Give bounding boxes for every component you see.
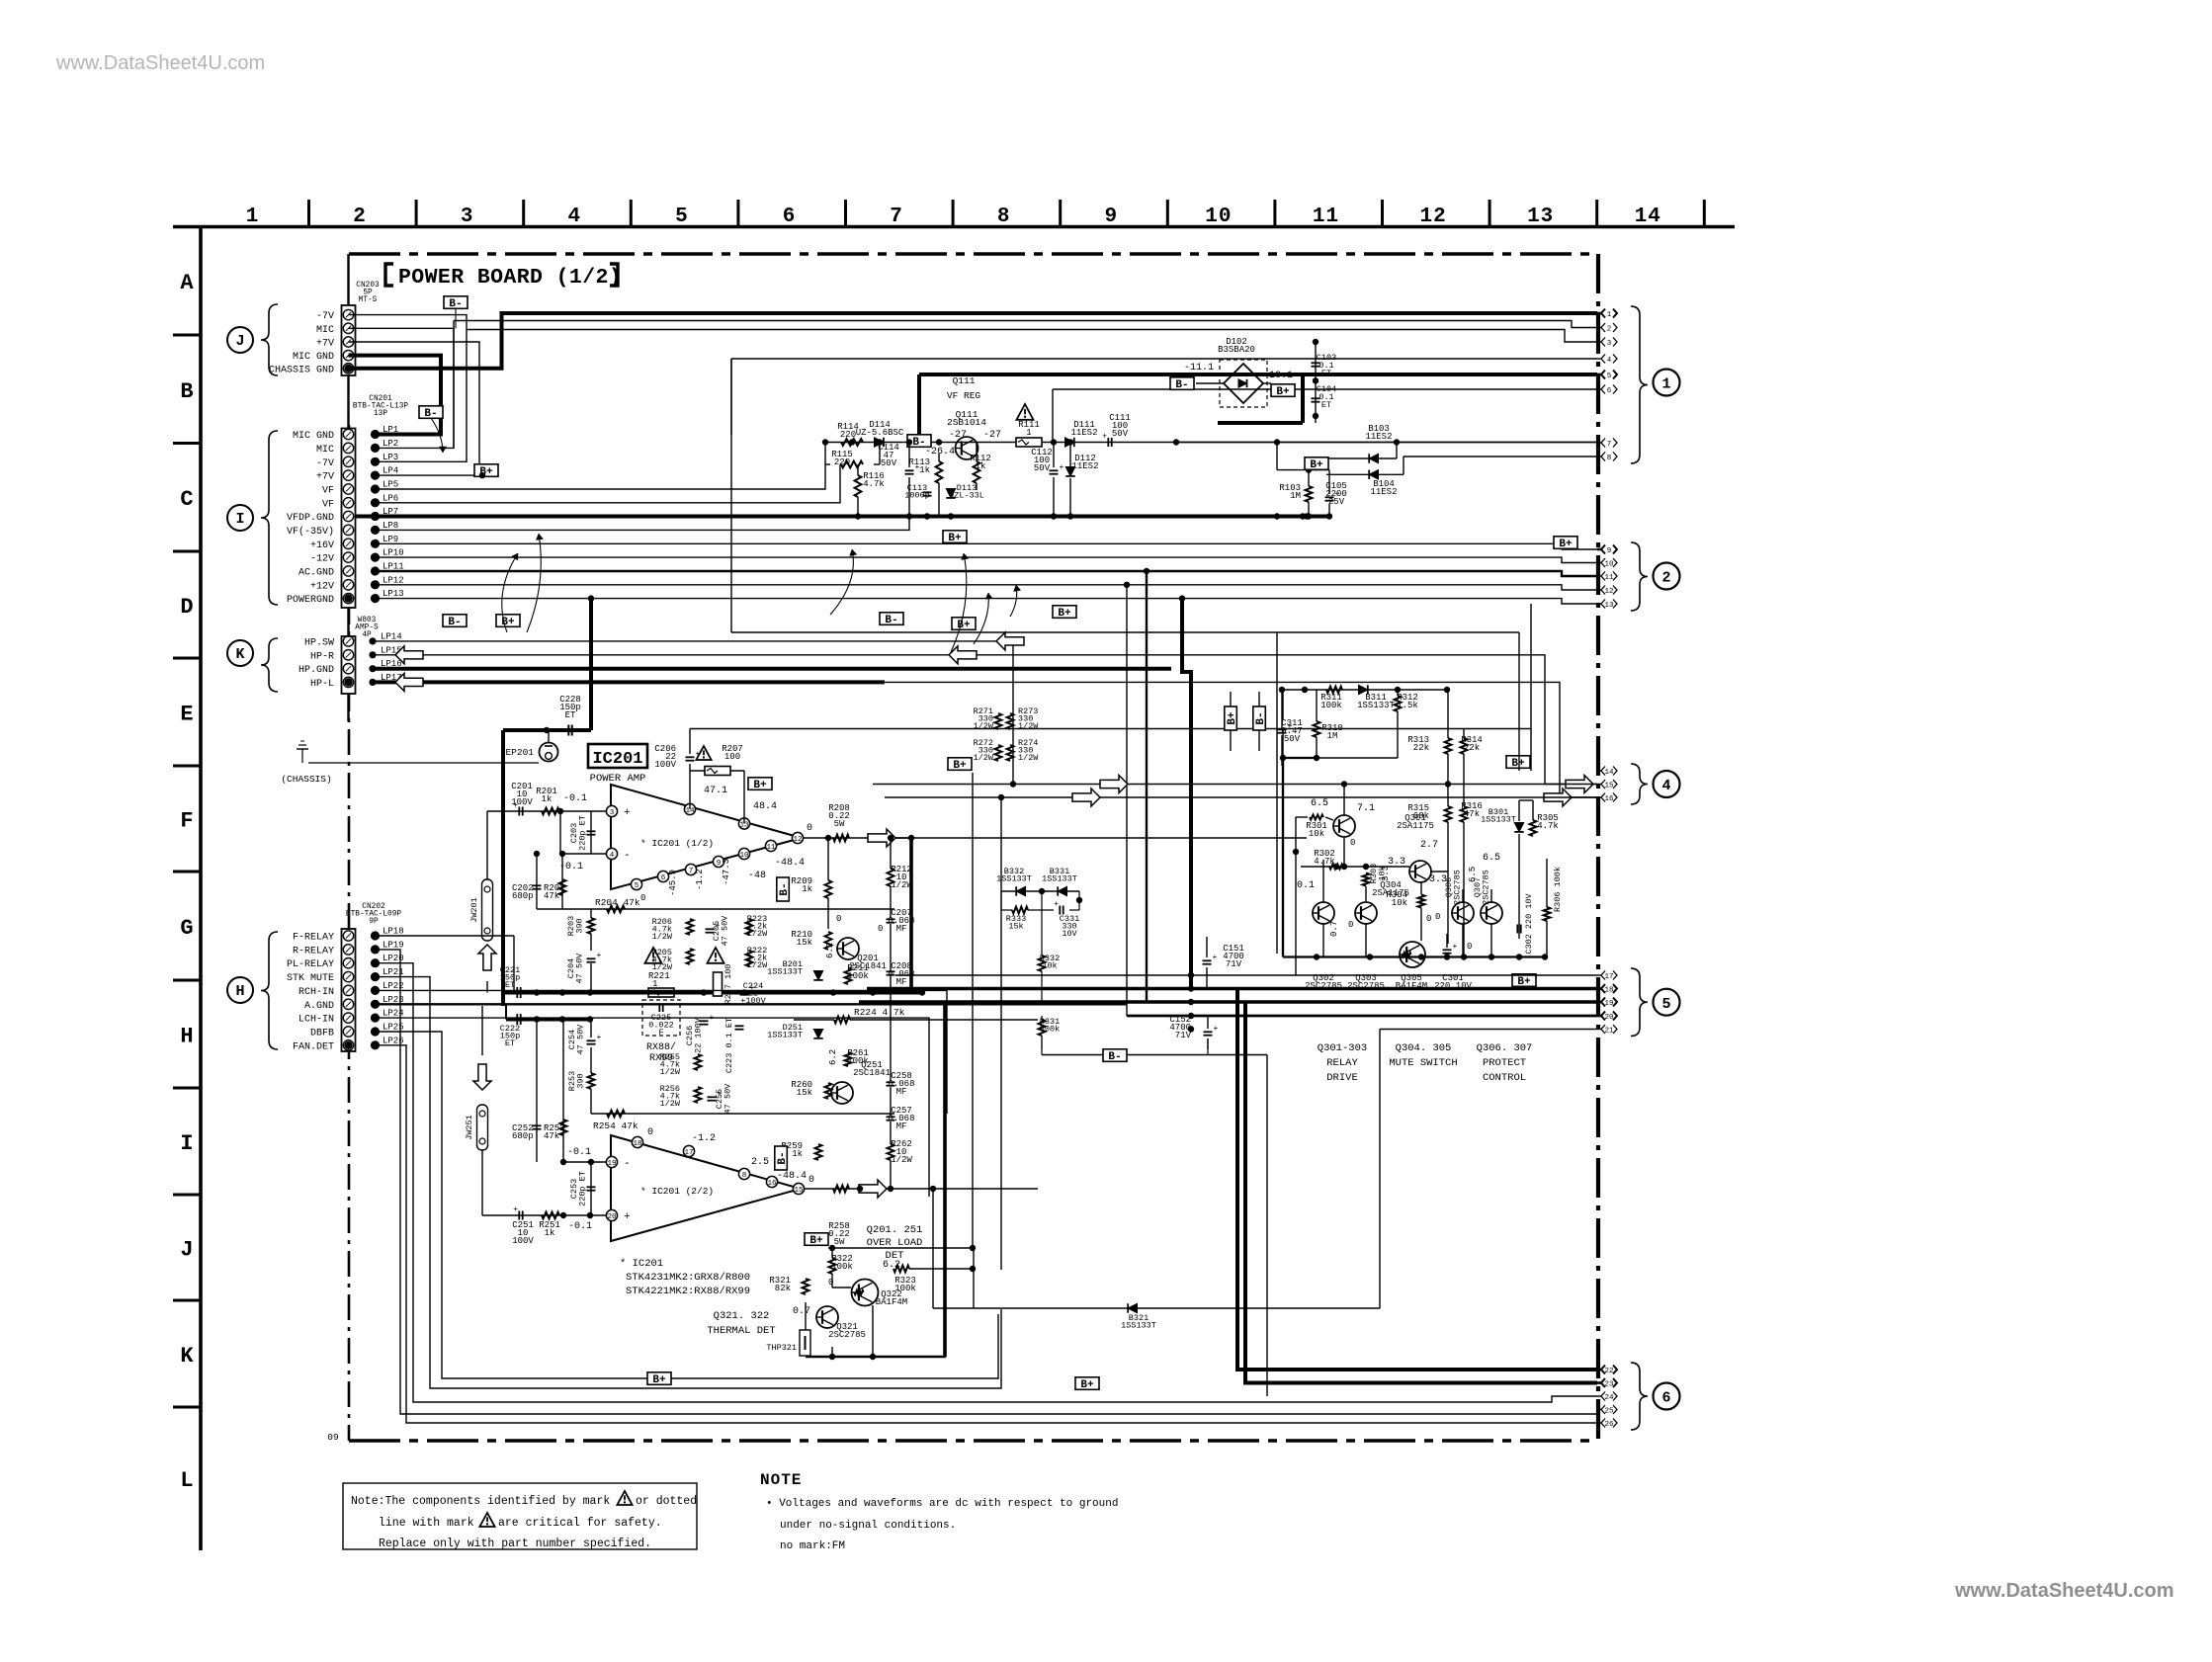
arrow up jumper [478, 945, 496, 970]
svg-text:220: 220 [840, 430, 856, 440]
circled net label 5 [1654, 989, 1680, 1016]
wire HP-L row [373, 680, 885, 684]
svg-text:0.7: 0.7 [1329, 921, 1339, 937]
svg-text:11: 11 [1313, 206, 1339, 228]
svg-text:+: + [1214, 1025, 1219, 1034]
capacitor C253 [590, 1162, 592, 1215]
svg-text:6.5: 6.5 [1468, 867, 1478, 882]
svg-text:FAN.DET: FAN.DET [293, 1041, 334, 1052]
ruler top line [173, 225, 1735, 229]
wire A.GND thick [376, 1003, 1128, 1005]
capacitor C112 [1050, 469, 1059, 471]
svg-text:-: - [624, 1158, 631, 1170]
brace for H group [261, 932, 278, 1049]
arrow into node 16 [1544, 789, 1572, 806]
node <25> [1597, 1409, 1601, 1411]
svg-text:23: 23 [1604, 1381, 1614, 1389]
svg-text:www.DataSheet4U.com: www.DataSheet4U.com [1954, 1580, 2174, 1602]
bridge rectifier D102 diamond [1224, 364, 1263, 403]
node <24> [1597, 1395, 1601, 1397]
capacitor C111 [1107, 438, 1109, 447]
connector chain vertical wire [347, 254, 349, 305]
svg-text:B+: B+ [1227, 711, 1238, 725]
CN202 pin R-RELAY / LP19 [343, 945, 353, 955]
svg-text:5: 5 [1607, 373, 1612, 380]
node <2> [1597, 327, 1601, 329]
svg-text:8: 8 [1607, 455, 1612, 462]
CN202 pin A.GND / LP23 [343, 999, 353, 1009]
svg-text:82k: 82k [775, 1284, 791, 1293]
capacitor C152 [1204, 1031, 1213, 1033]
svg-text:0.1: 0.1 [1297, 880, 1315, 891]
wire HP-R row [373, 655, 1597, 785]
svg-text:25: 25 [1604, 1408, 1614, 1416]
resistor R255 [695, 1054, 702, 1070]
connector I label circle [227, 505, 253, 531]
wire speaker rail stub [505, 1004, 507, 1019]
node <15> [1597, 784, 1601, 786]
relay bottom rail [1283, 956, 1545, 957]
thermistor THP321 [800, 1330, 810, 1356]
CN203 pin -7V [343, 309, 353, 319]
CN202 pin LCH-IN / LP24 [343, 1013, 353, 1023]
capacitor C256 [700, 1020, 709, 1022]
CN202 pin PL-RELAY / LP20 [343, 958, 353, 968]
svg-text:B-: B- [912, 437, 925, 449]
svg-text:R204 47k: R204 47k [595, 897, 640, 908]
svg-text:MT-S: MT-S [359, 296, 378, 304]
capacitor C225 dashed [642, 1000, 680, 1036]
svg-text:B+: B+ [1511, 758, 1525, 770]
svg-text:0: 0 [807, 823, 812, 834]
svg-text:6: 6 [661, 874, 666, 882]
CN201 pin MIC / LP2 [343, 443, 353, 453]
svg-text:G: G [180, 916, 193, 941]
svg-text:LP9: LP9 [383, 535, 398, 544]
svg-text:Q304. 305: Q304. 305 [1396, 1042, 1452, 1054]
svg-text:ET: ET [505, 1039, 515, 1048]
svg-text:-45.9: -45.9 [668, 870, 678, 896]
wire thick amp top rail [503, 728, 591, 732]
svg-text:+: + [1054, 900, 1059, 909]
svg-text:1/2W: 1/2W [891, 880, 912, 890]
wire node14 feed [1530, 604, 1532, 771]
svg-text:09: 09 [327, 1432, 339, 1443]
svg-text:+7V: +7V [316, 472, 334, 483]
svg-text:22: 22 [1604, 1368, 1613, 1375]
svg-text:R254 47k: R254 47k [593, 1121, 638, 1131]
svg-text:OVER LOAD: OVER LOAD [867, 1237, 923, 1249]
wire feedback row [537, 908, 894, 910]
svg-text:10V: 10V [1062, 929, 1077, 939]
wire mid drop 944 [932, 1189, 934, 1308]
resistor R111 box [1016, 438, 1042, 447]
svg-text:JW251: JW251 [465, 1115, 474, 1140]
arrow down mid [473, 1064, 491, 1090]
svg-text:LP14: LP14 [381, 631, 402, 641]
capacitor C208 [887, 970, 895, 972]
svg-text:5W: 5W [834, 819, 845, 829]
svg-text:1/2W: 1/2W [974, 721, 994, 731]
IC201 pin 20 [606, 1209, 617, 1220]
resistor R301 [1310, 815, 1323, 820]
svg-text:1SS133T: 1SS133T [1042, 874, 1077, 884]
wire MIC GND thick [349, 356, 442, 435]
svg-text:A.GND: A.GND [304, 1001, 334, 1012]
group5 row wires [895, 974, 1597, 976]
node <26> [1597, 1422, 1601, 1424]
svg-text:5: 5 [675, 206, 689, 228]
svg-text:390: 390 [576, 1073, 586, 1088]
svg-text:24: 24 [1604, 1394, 1614, 1402]
svg-text:R306 100k: R306 100k [1553, 867, 1563, 912]
svg-text:+: + [1102, 433, 1107, 442]
svg-text:B-: B- [1255, 711, 1267, 724]
svg-text:(CHASSIS): (CHASSIS) [281, 774, 331, 785]
svg-text:-7V: -7V [316, 458, 334, 469]
svg-text:18: 18 [1604, 987, 1613, 995]
resistor R311 [1326, 687, 1342, 694]
node <21> [1597, 1029, 1601, 1031]
svg-text:22k: 22k [1464, 743, 1480, 753]
CN201 pin MIC GND / LP1 [343, 429, 353, 439]
svg-text:THP321: THP321 [766, 1343, 797, 1353]
svg-text:POWER AMP: POWER AMP [590, 773, 646, 785]
transistor Q304 upper [1409, 861, 1431, 882]
resistor R115 [841, 461, 863, 468]
CN201 pin VF / LP6 [343, 498, 353, 508]
svg-text:POWER BOARD (1/2): POWER BOARD (1/2) [398, 266, 622, 290]
svg-text:47 50V: 47 50V [575, 953, 585, 984]
resistor R316 [1461, 806, 1468, 822]
power label B- rotated 2 [775, 1146, 789, 1170]
wire VF REG main row [825, 442, 1597, 444]
svg-text:UZ-5.6BSC: UZ-5.6BSC [856, 428, 904, 438]
capacitor C254 [587, 1039, 596, 1041]
svg-text:L: L [180, 1468, 193, 1493]
node dot row15 [1010, 781, 1016, 787]
CN201 pin -7V / LP3 [343, 457, 353, 466]
power label B+ under R272 [948, 758, 972, 772]
svg-text:1k: 1k [792, 1149, 803, 1159]
CN203 pin MIC GND [343, 350, 353, 360]
diode B201 [813, 971, 822, 980]
node <17> [1597, 974, 1601, 976]
resistor R257 box [714, 972, 723, 996]
resistor R112 [974, 461, 980, 483]
svg-text:-0.1: -0.1 [568, 1221, 592, 1232]
svg-text:48.4: 48.4 [753, 801, 777, 812]
zener D114 [875, 438, 884, 447]
svg-text:VF: VF [322, 486, 334, 497]
svg-text:PL-RELAY: PL-RELAY [287, 959, 334, 970]
ruler left line [199, 227, 203, 1551]
capacitor C205 [706, 928, 715, 930]
svg-text:MIC: MIC [316, 325, 334, 336]
wire B+ riser right [1301, 374, 1305, 423]
diode B301 [1514, 823, 1523, 832]
svg-text:MF: MF [896, 1122, 907, 1131]
power label B- mid D [880, 613, 903, 626]
wire B- rail [1042, 1054, 1267, 1056]
connector W803 body [342, 636, 356, 694]
connector CN201 body [342, 429, 356, 609]
CN202 pin F-RELAY / LP18 [343, 931, 353, 941]
svg-text:B-: B- [448, 617, 461, 628]
svg-text:LP12: LP12 [383, 575, 404, 585]
power label B+ row9 [1554, 537, 1577, 550]
node <9> [1597, 548, 1601, 551]
wire POWERGND drop to amp [589, 599, 593, 730]
svg-text:15: 15 [1604, 783, 1614, 790]
wire relay feed vertical [1276, 632, 1278, 954]
wire LCH-IN [376, 1018, 930, 1197]
resistor R253 [588, 1073, 595, 1089]
svg-text:or dotted: or dotted [636, 1495, 697, 1508]
wire base row [1301, 866, 1409, 868]
node <20> [1597, 1015, 1601, 1018]
svg-text:• Voltages and waveforms are d: • Voltages and waveforms are dc with res… [766, 1498, 1118, 1510]
wire VF row 1 [376, 464, 826, 489]
svg-text:0.7: 0.7 [793, 1306, 810, 1317]
svg-text:POWERGND: POWERGND [287, 595, 334, 606]
svg-text:6: 6 [1661, 1390, 1670, 1407]
CN201 pin +16V / LP9 [343, 539, 353, 548]
resistor R260 [825, 1083, 832, 1099]
wire RCH-IN [376, 990, 948, 1114]
transistor Q303 [1355, 902, 1377, 924]
ground bus thick row C [356, 515, 1330, 519]
warning triangle near R111 [1017, 404, 1034, 420]
svg-text:4.7k: 4.7k [1537, 821, 1559, 831]
node <23> [1597, 1381, 1601, 1384]
capacitor C331 [1059, 906, 1061, 915]
svg-text:300k: 300k [1040, 1025, 1060, 1035]
wire B+ drop [973, 1248, 975, 1308]
svg-text:4: 4 [610, 852, 615, 860]
svg-text:RCH-IN: RCH-IN [298, 987, 334, 998]
svg-text:H: H [235, 983, 244, 1000]
svg-text:-48.4: -48.4 [775, 858, 805, 869]
svg-text:STK4231MK2:GRX8/R800: STK4231MK2:GRX8/R800 [626, 1272, 750, 1284]
node <6> [1597, 388, 1601, 390]
svg-text:LP19: LP19 [383, 940, 404, 950]
thermal bottom rail [806, 1356, 946, 1359]
svg-text:47k: 47k [1464, 809, 1480, 819]
svg-text:9: 9 [1104, 206, 1118, 228]
wire R-RELAY loop [376, 950, 1598, 1414]
svg-text:+: + [624, 1211, 631, 1223]
CN201 pin POWERGND / LP13 [343, 593, 353, 603]
resistor R332 [1039, 956, 1046, 971]
svg-text:-26.4: -26.4 [925, 447, 955, 457]
svg-text:15k: 15k [797, 938, 812, 948]
svg-text:C302 220 10V: C302 220 10V [1524, 893, 1534, 955]
svg-text:220p ET: 220p ET [578, 815, 588, 851]
wire IC201 top feedback [690, 728, 1531, 730]
power label B+ bottom mid [1075, 1377, 1099, 1391]
resistor R315 [1445, 806, 1452, 822]
curved leader arrows [527, 534, 541, 632]
svg-text:-1.2: -1.2 [692, 1133, 716, 1144]
CN201 pin VFDP.GND / LP7 [343, 511, 353, 521]
svg-text:7.1: 7.1 [1357, 803, 1375, 814]
wire to node 7 [1176, 442, 1597, 444]
wire node23 riser thick [1245, 1002, 1597, 1383]
svg-text:B-: B- [885, 615, 897, 626]
svg-text:5W: 5W [834, 1237, 845, 1247]
title POWER BOARD (1/2) [385, 264, 393, 286]
svg-text:14: 14 [1604, 769, 1614, 777]
arrow mid node 15 [1100, 776, 1128, 793]
svg-text:26: 26 [1604, 1421, 1614, 1429]
svg-text:0: 0 [1467, 942, 1472, 952]
svg-text:0: 0 [1435, 912, 1440, 922]
svg-text:E: E [180, 703, 193, 727]
svg-text:19: 19 [607, 1160, 617, 1168]
wire CHASSIS GND to node 1 [349, 313, 1598, 369]
resistor R322 [829, 1258, 836, 1274]
svg-text:15: 15 [794, 1187, 804, 1195]
wire POWERGND drop right [1182, 599, 1191, 989]
svg-text:1/2W: 1/2W [747, 929, 768, 939]
power label B+ near R274 [1053, 606, 1076, 620]
brace group 6 [1631, 1363, 1648, 1430]
svg-text:B-: B- [777, 1151, 789, 1164]
svg-text:www.DataSheet4U.com: www.DataSheet4U.com [55, 52, 265, 74]
svg-text:17: 17 [684, 1149, 693, 1157]
capacitor C257 [887, 1116, 895, 1118]
connector K label circle [227, 640, 253, 666]
power label B+ row D [496, 615, 520, 628]
CN202 pin RCH-IN / LP22 [343, 985, 353, 995]
svg-text:F-RELAY: F-RELAY [293, 933, 334, 944]
wire row 15 long [873, 784, 1597, 786]
wire +7V CN203 [349, 342, 480, 475]
wire row to node 6 [1053, 388, 1597, 390]
diode B104 [1369, 470, 1378, 479]
arrow output2 [859, 1180, 887, 1198]
arrow into node 15 [1566, 776, 1593, 793]
svg-text:3.3: 3.3 [1381, 866, 1391, 881]
output row triangle2 [804, 1188, 871, 1190]
svg-text:1: 1 [246, 206, 260, 228]
svg-text:AC.GND: AC.GND [298, 568, 334, 579]
svg-text:22k: 22k [1413, 743, 1429, 753]
thick rail 1 [503, 991, 922, 995]
svg-text:ET: ET [1321, 400, 1331, 410]
brace group 2 [1631, 542, 1648, 611]
diode B331 [1058, 886, 1066, 895]
svg-text:STK MUTE: STK MUTE [287, 973, 334, 984]
svg-text:13: 13 [1604, 602, 1614, 610]
svg-text:10.1: 10.1 [1269, 371, 1293, 381]
svg-text:1SS133T: 1SS133T [1481, 815, 1516, 825]
svg-text:R224 4.7k: R224 4.7k [854, 1007, 905, 1018]
wire HP.SW row [373, 640, 1013, 642]
ground chassis symbol [301, 749, 303, 763]
svg-text:LP13: LP13 [383, 589, 404, 599]
svg-text:HP.GND: HP.GND [298, 665, 334, 676]
svg-text:-7V: -7V [316, 311, 334, 322]
wire row 16 long [885, 796, 1597, 798]
svg-text:2: 2 [1661, 570, 1670, 587]
svg-text:0: 0 [878, 924, 883, 934]
svg-text:8: 8 [997, 206, 1011, 228]
svg-text:Q321. 322: Q321. 322 [714, 1310, 770, 1322]
wire B+ net vertical [972, 773, 974, 1248]
resistor R313 [1445, 738, 1452, 754]
svg-text:LCH-IN: LCH-IN [298, 1015, 334, 1026]
svg-text:THERMAL DET: THERMAL DET [707, 1325, 775, 1337]
node <13> [1597, 603, 1601, 605]
capacitor C224 [740, 990, 749, 992]
circled net label 1 [1654, 370, 1680, 396]
op-amp IC201 second half triangle [611, 1135, 801, 1241]
transistor Q251 [831, 1082, 853, 1104]
CN202 pin STK MUTE / LP21 [343, 971, 353, 981]
jumper JW201 [482, 879, 493, 941]
power label B- above CN203 [444, 296, 468, 310]
svg-text:LP6: LP6 [383, 493, 398, 503]
svg-text:100: 100 [724, 752, 740, 762]
brace group 4 [1631, 764, 1648, 804]
resistor R201 [542, 808, 559, 815]
svg-text:100k: 100k [831, 1262, 853, 1272]
svg-text:10: 10 [1604, 561, 1614, 569]
svg-text:9: 9 [1607, 547, 1612, 555]
capacitor C228 [567, 725, 569, 736]
svg-text:MF: MF [896, 1087, 907, 1097]
svg-text:50V: 50V [1034, 463, 1051, 473]
connector CN203 body [342, 305, 356, 375]
svg-text:+: + [513, 801, 518, 810]
svg-text:3: 3 [461, 206, 474, 228]
node <7> [1597, 442, 1601, 444]
power label B+ relay [1506, 756, 1530, 770]
svg-text:CHASSIS GND: CHASSIS GND [269, 365, 334, 375]
capacitor C223 [735, 1025, 744, 1027]
transistor Q321 [816, 1306, 838, 1328]
safety note box [343, 1483, 697, 1549]
svg-text:5: 5 [635, 882, 639, 890]
wire to node 8 [1326, 473, 1404, 475]
resistor R312 [1395, 696, 1402, 711]
svg-text:under no-signal conditions.: under no-signal conditions. [780, 1520, 956, 1532]
svg-text:A: A [180, 271, 194, 295]
svg-text:+: + [624, 807, 631, 819]
svg-text:ET: ET [1321, 369, 1331, 378]
svg-text:I: I [235, 511, 244, 528]
capacitor C204 [587, 957, 596, 959]
resistor R254 [607, 1111, 625, 1118]
wire thick left rail down [501, 730, 505, 1006]
connector J label circle [227, 327, 253, 353]
CN201 pin AC.GND / LP11 [343, 566, 353, 576]
arrow on HP-R row [395, 646, 423, 664]
svg-text:0: 0 [1350, 838, 1355, 848]
wire v740 extend [730, 443, 732, 633]
svg-text:1: 1 [1661, 376, 1670, 393]
wire LP11 row to node 11 [376, 571, 1598, 576]
resistor R304 [1418, 895, 1425, 908]
svg-text:21: 21 [1604, 1028, 1614, 1036]
CN203 pin MIC [343, 323, 353, 333]
svg-text:MF: MF [896, 977, 907, 987]
resistor R103 [1306, 486, 1313, 502]
svg-text:VF: VF [322, 499, 334, 510]
svg-text:Q201. 251: Q201. 251 [867, 1224, 923, 1236]
